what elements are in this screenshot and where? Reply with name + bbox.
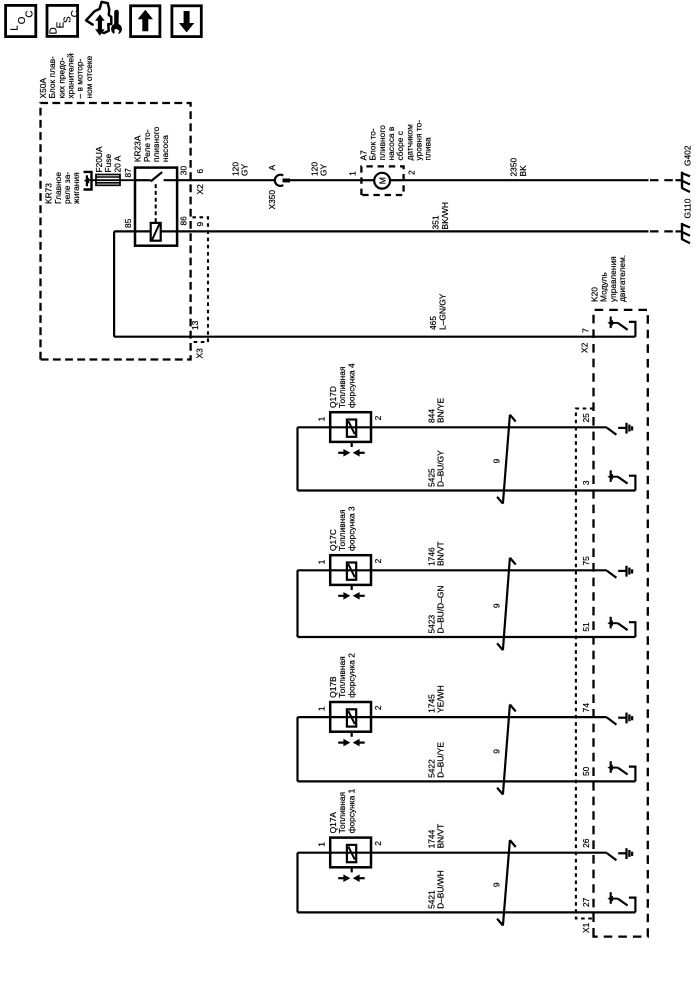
- svg-text:9: 9: [492, 882, 502, 887]
- svg-text:30: 30: [179, 166, 189, 176]
- svg-text:9: 9: [195, 222, 205, 227]
- svg-text:C: C: [70, 10, 81, 17]
- svg-text:D–BU/GY: D–BU/GY: [436, 450, 446, 487]
- svg-text:25: 25: [581, 413, 591, 423]
- svg-text:X1: X1: [581, 922, 591, 933]
- svg-text:L–GN/GY: L–GN/GY: [437, 293, 447, 330]
- svg-text:двигателем.: двигателем.: [617, 255, 627, 302]
- svg-text:C: C: [24, 10, 35, 17]
- svg-text:X3: X3: [195, 348, 205, 359]
- svg-text:1: 1: [317, 559, 327, 564]
- svg-text:7: 7: [580, 328, 590, 333]
- svg-text:1: 1: [317, 842, 327, 847]
- svg-text:форсунка 3: форсунка 3: [346, 506, 356, 551]
- svg-text:75: 75: [581, 556, 591, 566]
- svg-text:50: 50: [581, 766, 591, 776]
- svg-text:85: 85: [123, 218, 133, 228]
- svg-text:27: 27: [581, 897, 591, 907]
- svg-text:2: 2: [373, 558, 383, 563]
- svg-text:X2: X2: [195, 184, 205, 195]
- svg-text:1: 1: [317, 416, 327, 421]
- svg-text:51: 51: [581, 622, 591, 632]
- svg-text:жигания: жигания: [71, 172, 81, 204]
- svg-text:A: A: [267, 165, 277, 171]
- svg-text:GY: GY: [240, 163, 250, 176]
- svg-text:D–BU/YE: D–BU/YE: [436, 742, 446, 778]
- svg-text:насоса: насоса: [160, 135, 170, 162]
- svg-text:74: 74: [581, 703, 591, 713]
- svg-text:2: 2: [373, 415, 383, 420]
- svg-text:G110: G110: [682, 198, 692, 218]
- svg-text:L: L: [9, 25, 20, 31]
- svg-text:6: 6: [195, 169, 205, 174]
- svg-text:BN/VT: BN/VT: [436, 824, 446, 849]
- svg-text:BK: BK: [518, 165, 528, 177]
- svg-text:2: 2: [406, 170, 416, 175]
- svg-text:87: 87: [123, 168, 133, 178]
- svg-text:BN/VT: BN/VT: [436, 541, 446, 566]
- svg-text:20 A: 20 A: [112, 155, 122, 172]
- svg-text:форсунка 1: форсунка 1: [346, 788, 356, 833]
- svg-text:9: 9: [492, 749, 502, 754]
- svg-text:2: 2: [373, 705, 383, 710]
- svg-text:BK/WH: BK/WH: [440, 202, 450, 229]
- svg-text:2: 2: [373, 841, 383, 846]
- svg-text:BN/YE: BN/YE: [436, 397, 446, 423]
- svg-text:D–BU/WH: D–BU/WH: [436, 870, 446, 909]
- svg-text:1: 1: [348, 171, 358, 176]
- svg-text:плива: плива: [423, 137, 433, 160]
- svg-text:YE/WH: YE/WH: [436, 685, 446, 712]
- svg-text:X2: X2: [580, 342, 590, 353]
- svg-text:26: 26: [581, 838, 591, 848]
- svg-text:9: 9: [492, 603, 502, 608]
- svg-text:9: 9: [492, 458, 502, 463]
- svg-text:3: 3: [581, 480, 591, 485]
- svg-text:1: 1: [317, 706, 327, 711]
- svg-text:форсунка 2: форсунка 2: [346, 653, 356, 698]
- svg-text:G402: G402: [682, 145, 692, 166]
- svg-text:X350: X350: [267, 190, 277, 210]
- svg-text:13: 13: [190, 320, 200, 330]
- svg-text:D–BU/D–GN: D–BU/D–GN: [436, 586, 446, 634]
- svg-text:M: M: [377, 177, 387, 184]
- svg-text:86: 86: [179, 216, 189, 226]
- svg-text:GY: GY: [319, 163, 329, 176]
- svg-text:форсунка 4: форсунка 4: [346, 363, 356, 408]
- svg-text:ном отсеке: ном отсеке: [84, 55, 94, 98]
